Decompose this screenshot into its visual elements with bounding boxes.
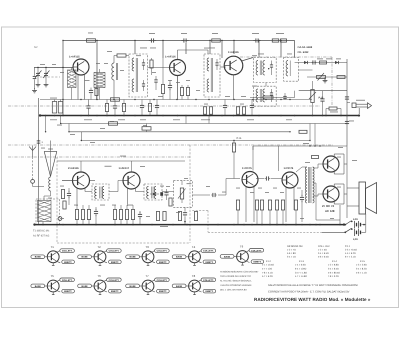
- svg-text:SALVO MODIFICHE ALLE DIVERSE “: SALVO MODIFICHE ALLE DIVERSE “F” DI WATT…: [268, 284, 358, 287]
- whip antenna triangle: [44, 141, 57, 177]
- transistor TR2 AF116: [165, 56, 186, 76]
- table coil resistances row2: [262, 260, 367, 278]
- capacitor C10c AGC: [283, 93, 286, 100]
- svg-text:EMETT.: EMETT.: [206, 261, 214, 264]
- transistor pinout T4: [172, 245, 216, 265]
- wire TR3 emitter down: [233, 75, 235, 100]
- svg-text:COLLETT.: COLLETT.: [157, 250, 168, 253]
- svg-text:1×AF117: 1×AF117: [119, 167, 130, 170]
- terminal dot F1.4: [268, 68, 269, 69]
- capacitor C10: [320, 91, 324, 116]
- variable capacitor CV1 tuning: [35, 68, 42, 83]
- svg-text:1-3 = 2.9Ω: 1-3 = 2.9Ω: [356, 264, 367, 267]
- module border dash-dot lower: [8, 156, 190, 158]
- transistor pinout T5: [31, 274, 75, 294]
- wire TR7 collector to transformer: [296, 167, 307, 172]
- resistor R6a between F1.2 and TR2: [150, 58, 153, 75]
- volume potentiometer P.15: [309, 81, 324, 116]
- wire detector row2: [299, 69, 313, 71]
- junction dots on bus2: [33, 223, 345, 225]
- svg-text:1×OC75: 1×OC75: [284, 167, 294, 170]
- wire rail drop x222: [221, 41, 223, 59]
- resistor group AF: [236, 200, 297, 210]
- svg-text:BASE: BASE: [176, 285, 183, 288]
- wire rail drop x210: [209, 41, 211, 55]
- junction dots base rail: [37, 67, 63, 68]
- wire rail drop to T3: [233, 41, 235, 55]
- F2 windings: [95, 187, 104, 199]
- wire left vertical x38.5: [38, 98, 40, 225]
- ferrite antenna coil L5: [36, 199, 60, 224]
- capacitor C16 TR4: [67, 188, 71, 205]
- svg-text:EMETT.: EMETT.: [159, 261, 167, 264]
- transistor TR1 AF115: [69, 56, 89, 76]
- transistor TR8 OC74: [323, 156, 339, 172]
- wire F1.3 to TR3 base: [220, 66, 226, 68]
- capacitor C9 in F1.5: [270, 89, 273, 102]
- module border dash-dot top section: [8, 105, 320, 107]
- resistor R1 on top rail: [212, 33, 221, 42]
- capacitor C31 under F1.2: [140, 100, 144, 116]
- ground CV1: [37, 82, 39, 85]
- capacitor C5 left: [33, 68, 37, 90]
- wire x347 vertical: [346, 59, 348, 116]
- terminal right of L5: [58, 217, 62, 221]
- resistor R26b feedback: [312, 156, 319, 159]
- module border dash vertical left: [56, 157, 58, 243]
- diode D2: [335, 61, 338, 64]
- wires group drops: [77, 205, 133, 225]
- IF transformer F1.4 dashed box: [254, 58, 277, 83]
- junction dots y146: [309, 145, 320, 146]
- svg-text:1×AF116: 1×AF116: [165, 56, 176, 59]
- dash-dot border detector right: [331, 57, 333, 106]
- wire TR4 leads down: [77, 188, 85, 206]
- wire F2 to TR5 base: [109, 181, 123, 192]
- electrolytic C11 above bus: [50, 98, 57, 113]
- F3 windings: [147, 187, 156, 199]
- wire drop x253: [252, 146, 254, 171]
- svg-text:BASE: BASE: [82, 285, 89, 288]
- wire detector row3: [307, 76, 347, 78]
- wire rail drop to F1.2: [134, 41, 136, 55]
- F1.3 secondary winding: [207, 79, 209, 92]
- transistor TR5 AF117: [119, 167, 141, 189]
- svg-text:5-6 = 0.5Ω: 5-6 = 0.5Ω: [318, 255, 329, 258]
- wire jack to bus: [358, 108, 360, 114]
- IF transformer F1.3 dashed box: [204, 54, 220, 97]
- svg-text:T8: T8: [192, 274, 196, 278]
- diode D1: [304, 61, 307, 64]
- capacitor C32 under F1.2: [155, 100, 159, 116]
- F1.2 secondary winding: [132, 79, 134, 92]
- svg-text:4-5 = 6.2Ω: 4-5 = 6.2Ω: [345, 252, 356, 255]
- wire rail drop x163: [162, 41, 164, 59]
- wire detector row4: [299, 90, 347, 92]
- wire drop x69: [68, 124, 70, 132]
- transistor pinout T6: [78, 274, 122, 294]
- svg-text:T9: T9: [240, 245, 244, 249]
- wire rail drop x281: [280, 41, 282, 58]
- svg-text:3-4 = 1Ω: 3-4 = 1Ω: [287, 255, 296, 258]
- svg-text:EMETT.: EMETT.: [159, 290, 167, 293]
- transistor TR4 AF116: [68, 167, 90, 189]
- svg-text:BASE: BASE: [130, 285, 137, 288]
- svg-text:5-6 = 8Ω: 5-6 = 8Ω: [287, 252, 296, 255]
- volume potentiometer dashed box: [174, 180, 193, 207]
- ground detector: [323, 77, 328, 83]
- transistor TR3 AF116: [224, 51, 243, 75]
- svg-text:BASE: BASE: [224, 255, 231, 258]
- wire rail drop x97: [96, 41, 98, 79]
- wire across tuning: [96, 78, 98, 100]
- svg-text:EMETT.: EMETT.: [111, 290, 119, 293]
- transistor pinout T9: [220, 245, 264, 265]
- wire feed y131.8: [69, 131, 290, 133]
- resistor R21: [156, 212, 159, 221]
- IF transformer F1.2 dashed box: [129, 54, 148, 97]
- oscillator coil L2: [112, 56, 129, 100]
- resistor R2 on top rail: [272, 39, 279, 42]
- resistor R17b: [289, 130, 307, 133]
- resistor R5 top of L2: [117, 54, 126, 57]
- wire detector row1: [295, 62, 347, 64]
- svg-text:1-2 = 7Ω: 1-2 = 7Ω: [287, 249, 296, 252]
- F1.4 primary: [256, 61, 265, 76]
- resistor R5c on emitter rail: [111, 98, 120, 101]
- capacitor C14 below bus: [345, 121, 354, 124]
- svg-text:T3: T3: [145, 245, 149, 249]
- wire rail drop x186: [185, 43, 187, 54]
- F1.2 primary winding: [132, 58, 138, 92]
- electrolytic C20: [300, 190, 304, 222]
- svg-text:RADIORICEVITORE WATT RADIO Mod: RADIORICEVITORE WATT RADIO Mod. « Module…: [254, 297, 371, 302]
- svg-text:P.1.1: P.1.1: [345, 245, 351, 248]
- coil L4 below whip: [44, 177, 51, 201]
- svg-text:BASE: BASE: [35, 256, 42, 259]
- resistor group TR4 bias: [75, 210, 90, 220]
- svg-text:1×OC75: 1×OC75: [242, 167, 252, 170]
- resistor R17: [142, 124, 151, 132]
- wire feed y146: [253, 145, 347, 147]
- detector dashed box: [284, 58, 299, 82]
- wire feed y123.5: [61, 123, 347, 125]
- headphone jack J1: [352, 100, 372, 109]
- resistor R11: [337, 76, 345, 79]
- resistor R25 P.16: [232, 137, 242, 179]
- F1.3 primary winding: [207, 58, 213, 92]
- resistor R20: [169, 198, 172, 206]
- wire output collectors: [334, 154, 344, 204]
- battery B2 4.5V: [353, 229, 366, 241]
- svg-text:1-2 = 9.8Ω: 1-2 = 9.8Ω: [328, 264, 339, 267]
- wire feedback: [252, 146, 254, 150]
- wire TR4 collector to F2: [85, 191, 92, 193]
- capacitor C19 coupling: [256, 176, 282, 180]
- capacitor C15 on x38.5: [37, 140, 44, 144]
- antenna coil L1b crosshatch: [94, 69, 105, 100]
- antenna coil L1a crosshatch: [68, 68, 77, 100]
- resistor R31 under F1.2: [148, 100, 151, 116]
- label IF alignment: [33, 230, 50, 238]
- svg-text:CORRENTI A RIPOSO FRA 20mA - E: CORRENTI A RIPOSO FRA 20mA - E.T. CON FI…: [268, 291, 350, 294]
- svg-text:COLLETT.: COLLETT.: [157, 279, 168, 282]
- capacitor C7 TR2: [168, 80, 172, 100]
- wire battery negative: [322, 231, 345, 233]
- transistor pinout T8: [172, 274, 216, 294]
- note text block measurements: [220, 271, 259, 292]
- wire TR7 leads: [286, 186, 294, 223]
- capacitor C2 on top rail: [181, 33, 189, 43]
- capacitor C33 under F1.3: [223, 100, 227, 116]
- svg-text:EMETT.: EMETT.: [111, 261, 119, 264]
- svg-text:T5: T5: [51, 274, 55, 278]
- label output pair: [322, 204, 335, 213]
- capacitor C30b above bus: [113, 100, 117, 116]
- svg-text:COLL. AVV.: COLL. AVV.: [318, 245, 330, 248]
- speaker LS: [359, 182, 377, 214]
- svg-text:EMETT.: EMETT.: [254, 261, 262, 264]
- svg-text:BASE: BASE: [35, 285, 42, 288]
- module border dash bottom: [57, 242, 190, 244]
- wire detector to volume: [162, 191, 174, 193]
- resistor R23 under volume: [178, 212, 181, 221]
- resistor R30c above bus: [122, 100, 125, 116]
- svg-text:EMETT.: EMETT.: [64, 261, 72, 264]
- wire drop x310: [309, 124, 311, 141]
- svg-text:3-4 = 8.2Ω: 3-4 = 8.2Ω: [356, 267, 367, 270]
- resistor R30a above bus: [105, 100, 108, 116]
- resistor group TR5 bias: [113, 210, 134, 220]
- wire TR2 collector up: [178, 50, 209, 60]
- wire drop x186b: [185, 116, 187, 124]
- svg-text:COLLETT.: COLLETT.: [251, 249, 262, 252]
- ground CV2: [45, 82, 47, 85]
- dashed tuning gang link: [40, 76, 60, 78]
- wire drop x81: [80, 132, 82, 141]
- svg-text:3-4 = 6.5Ω: 3-4 = 6.5Ω: [318, 252, 329, 255]
- wire volume to TR6: [192, 179, 240, 198]
- svg-text:24-7 = 1.8Ω: 24-7 = 1.8Ω: [295, 271, 307, 274]
- svg-text:T1 465 KC 4%: T1 465 KC 4%: [33, 230, 50, 233]
- battery B1 4.5V: [353, 218, 366, 228]
- table coil resistances row1: [287, 245, 357, 259]
- svg-text:3-4 = 6.5Ω: 3-4 = 6.5Ω: [328, 267, 339, 270]
- junction dots on top rail: [62, 40, 281, 41]
- capacitor C10a: [312, 60, 317, 64]
- electrolytic C12 above bus: [58, 100, 62, 114]
- bottom bus wire (battery rail): [35, 224, 345, 226]
- antenna symbol: [29, 146, 36, 158]
- svg-text:EMETT.: EMETT.: [206, 290, 214, 293]
- svg-text:I VALORI POSSONO VARIARE: I VALORI POSSONO VARIARE: [220, 284, 252, 287]
- svg-text:DEL ± 10%. BATTERIA 9V.: DEL ± 10%. BATTERIA 9V.: [220, 289, 247, 292]
- wire TR3 collector: [242, 58, 254, 62]
- label P.14: [105, 165, 112, 168]
- wire rail end drop: [294, 41, 296, 58]
- svg-text:BASE: BASE: [130, 256, 137, 259]
- potentiometer R10 with arrow: [317, 73, 326, 81]
- IF transformer F3 dashed box: [144, 184, 162, 200]
- svg-text:4-7 = 14.8Ω: 4-7 = 14.8Ω: [295, 275, 307, 278]
- resistor R3 on top rail: [276, 33, 287, 42]
- capacitor C8a in F1.3: [215, 59, 218, 70]
- resistor R19 TR4: [61, 190, 64, 199]
- capacitor C41: [164, 189, 168, 200]
- wire drop x60: [60, 116, 62, 124]
- capacitor C42 under L1b: [89, 88, 93, 100]
- wire TR4 top: [80, 161, 82, 172]
- module border dash vertical right: [189, 145, 191, 243]
- label detector values: [317, 57, 341, 60]
- svg-text:4,5V: 4,5V: [353, 238, 358, 241]
- driver transformer T-D: [306, 167, 315, 203]
- wire volume wiper down: [183, 207, 187, 224]
- main bus wire (0V rail): [40, 115, 359, 117]
- IF transformer F2 dashed box: [92, 184, 109, 200]
- svg-text:5-6 = 80.5Ω: 5-6 = 80.5Ω: [328, 271, 340, 274]
- capacitor C13 above bus: [86, 100, 90, 116]
- misc value labels: [40, 48, 357, 219]
- IF transformer F1.5 dashed box: [254, 86, 277, 106]
- svg-text:2-3 = 70.5Ω: 2-3 = 70.5Ω: [345, 249, 357, 252]
- wire transformer taps: [313, 164, 340, 225]
- svg-text:1×AF116: 1×AF116: [228, 51, 239, 54]
- svg-text:EMETT.: EMETT.: [64, 290, 72, 293]
- capacitor C6b in F1.2: [142, 80, 145, 91]
- svg-text:NV: NV: [34, 46, 38, 49]
- svg-text:T7: T7: [145, 274, 149, 278]
- value labels under bus: [50, 118, 292, 121]
- resistor R42 under L1b: [95, 88, 98, 100]
- ground C5: [34, 88, 36, 91]
- svg-text:T1: T1: [51, 245, 55, 249]
- transistor pinout T2: [78, 245, 122, 265]
- wire to speaker: [344, 146, 359, 218]
- label diode group reference: [298, 46, 313, 54]
- svg-text:2× OC 74: 2× OC 74: [322, 204, 334, 208]
- wire L5 to bus2: [42, 222, 44, 225]
- wire T1 base rail: [34, 67, 74, 69]
- resistor R6 TR2 emitter: [161, 58, 164, 100]
- wire F1.2 to TR2 base: [148, 67, 170, 69]
- transistor TR7 OC75: [282, 167, 298, 188]
- wire jack feed: [347, 101, 350, 103]
- svg-text:COLLETT.: COLLETT.: [203, 279, 214, 282]
- switch S1: [344, 221, 352, 226]
- svg-text:7-8 = 5.1Ω: 7-8 = 5.1Ω: [262, 271, 273, 274]
- resistor R15 vertical: [242, 107, 245, 115]
- wire TR4 base: [62, 180, 73, 182]
- svg-text:COLLETT.: COLLETT.: [109, 279, 120, 282]
- svg-text:GR BF/GR OM: GR BF/GR OM: [287, 245, 303, 248]
- module border dash-dot mid: [8, 144, 333, 146]
- svg-text:COLLETT.: COLLETT.: [203, 250, 214, 253]
- wire TR2 emitter down: [177, 76, 179, 100]
- svg-text:F1.3: F1.3: [299, 260, 304, 263]
- wire drop x315b: [314, 124, 316, 147]
- junction dots on bus: [39, 114, 360, 116]
- resistor R12 vertical: [203, 107, 206, 115]
- svg-text:TENSIONI MISURATE CON VOLTME-: TENSIONI MISURATE CON VOLTME-: [220, 271, 259, 274]
- capacitor C17: [94, 207, 98, 225]
- transistor TR6 OC75: [242, 167, 258, 188]
- svg-text:5-7 = 6.2Ω: 5-7 = 6.2Ω: [262, 275, 273, 278]
- wire between F1.4 and F1.5: [265, 83, 267, 87]
- antenna terminal: [31, 180, 44, 187]
- wire drop x209: [208, 116, 210, 124]
- wire feed y140.5: [81, 140, 310, 142]
- resistor R18 left: [63, 201, 66, 209]
- wire rail drop left: [62, 40, 64, 116]
- detector coil: [286, 61, 290, 77]
- resistor R24 under volume: [194, 212, 197, 221]
- svg-text:T4: T4: [192, 245, 196, 249]
- wire drop x45.6: [45, 116, 46, 133]
- svg-text:A1 RF 927 KG: A1 RF 927 KG: [33, 235, 49, 238]
- svg-text:T2: T2: [97, 245, 101, 249]
- svg-text:AC 128: AC 128: [325, 209, 335, 213]
- wire battery to speaker: [365, 214, 367, 232]
- dash-dot border detector module: [240, 56, 332, 58]
- capacitor C8 in F1.4: [270, 61, 273, 76]
- diode D3 detector: [150, 192, 159, 195]
- resistor R10c AGC: [263, 96, 273, 99]
- switch S2: [344, 228, 352, 233]
- potentiometer P1: [178, 180, 186, 203]
- svg-text:1-2 = 5Ω: 1-2 = 5Ω: [318, 249, 327, 252]
- capacitor C13b on x347: [345, 97, 349, 99]
- svg-text:F1.4: F1.4: [332, 260, 337, 263]
- svg-text:OA-52- 6698: OA-52- 6698: [298, 46, 313, 49]
- svg-text:COLLETT.: COLLETT.: [109, 250, 120, 253]
- resistor R13 vertical: [209, 107, 212, 115]
- label P.11: [140, 47, 147, 50]
- svg-text:6-4 = 120Ω: 6-4 = 120Ω: [295, 267, 307, 270]
- svg-text:1-4 = 0.6Ω: 1-4 = 0.6Ω: [295, 264, 306, 267]
- svg-text:CD- 6492: CD- 6492: [298, 51, 309, 54]
- F1.5 windings: [256, 89, 265, 102]
- junction dots feeds: [60, 123, 311, 141]
- wire antenna dashed: [32, 157, 34, 179]
- wire emitter rail: [40, 99, 312, 101]
- resistor R16: [109, 122, 118, 125]
- wire TR6 leads: [246, 185, 254, 222]
- wire x278 drop: [277, 146, 279, 171]
- wire TR5 top: [131, 161, 133, 172]
- wire rail drop to F1.4: [258, 41, 260, 58]
- capacitor C34 under F1.5: [250, 100, 254, 116]
- resistor R22: [163, 212, 166, 221]
- svg-text:BASE: BASE: [82, 256, 89, 259]
- svg-text:BASE: BASE: [176, 256, 183, 259]
- svg-text:4,5V: 4,5V: [353, 218, 358, 221]
- transistor TR9 AC128: [323, 186, 339, 202]
- svg-text:F1.2: F1.2: [266, 260, 271, 263]
- label V.1.5: [187, 182, 192, 185]
- svg-text:T6: T6: [97, 274, 101, 278]
- resistor R12b above bus: [326, 107, 341, 116]
- svg-text:COLLETT.: COLLETT.: [62, 250, 73, 253]
- wire bus x347 down: [346, 116, 348, 147]
- resistor R14 vertical: [236, 107, 239, 115]
- transistor pinout T7: [126, 274, 170, 294]
- capacitor C1 on top rail: [149, 33, 156, 43]
- label under bus IF: [160, 225, 168, 228]
- resistor R7 TR2 bias: [180, 85, 183, 100]
- transistor pinout T1: [31, 245, 75, 265]
- wire TR5 leads down: [128, 188, 136, 206]
